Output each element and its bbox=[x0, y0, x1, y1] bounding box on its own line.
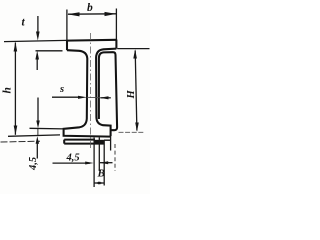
svg-text:h: h bbox=[2, 87, 14, 93]
svg-text:4,5: 4,5 bbox=[28, 157, 39, 171]
svg-text:t: t bbox=[22, 17, 26, 29]
svg-text:s: s bbox=[59, 84, 64, 95]
svg-text:B: B bbox=[97, 168, 105, 180]
svg-text:H: H bbox=[126, 90, 137, 100]
svg-text:b: b bbox=[87, 2, 93, 14]
svg-text:4,5: 4,5 bbox=[66, 153, 80, 164]
